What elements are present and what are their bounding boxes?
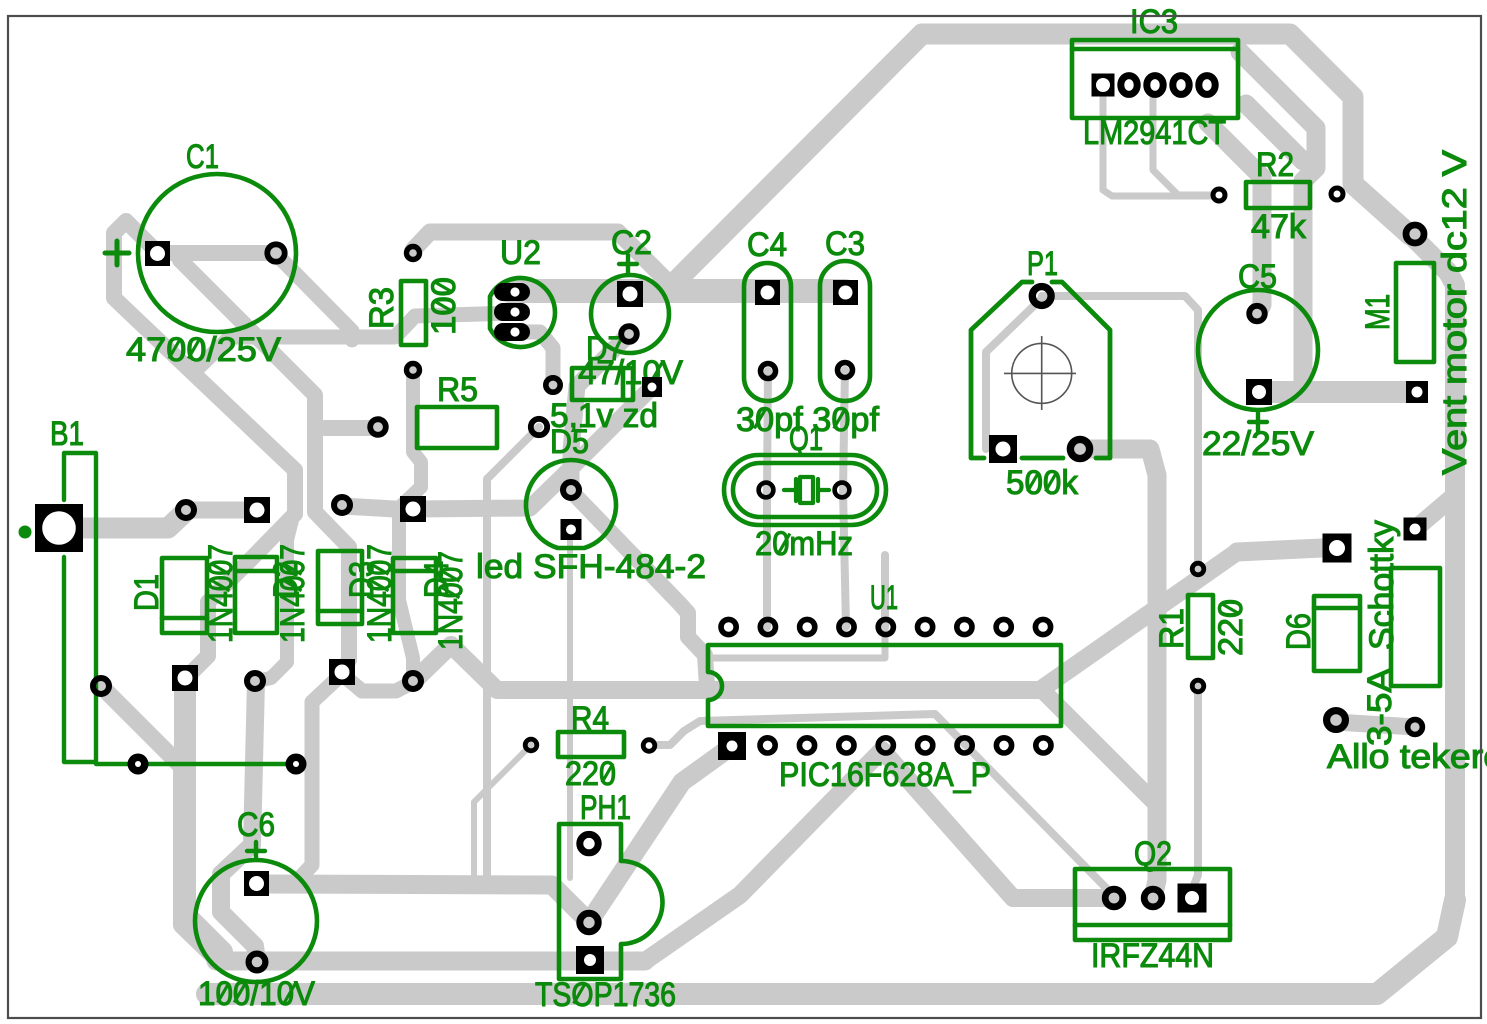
- pad R5 right ring: [531, 419, 547, 435]
- wire trace D5 pad down to bundle: [567, 540, 573, 878]
- motor connector M1 body: [1396, 263, 1434, 362]
- pad C5 top ring: [1249, 306, 1265, 322]
- crystal Q1 inner outline: [733, 463, 877, 517]
- C1 plus sign: [105, 241, 129, 265]
- P1 rotor crosshair: [1004, 336, 1076, 410]
- wire trace R5 right ring diagonal to U1 pin1: [487, 427, 539, 883]
- slashed zero 220 R4: [602, 764, 613, 783]
- wire trace P inner bundle: [1246, 104, 1303, 161]
- resistor R1 body: [1188, 595, 1213, 658]
- svg-text:22/25V: 22/25V: [1202, 425, 1314, 463]
- D7 cathode band: [621, 368, 626, 400]
- svg-text:IC3: IC3: [1130, 3, 1178, 41]
- pad R3 top ring: [407, 247, 420, 260]
- svg-text:PH1: PH1: [580, 789, 631, 827]
- slashed O TSOP1736: [574, 985, 585, 1004]
- svg-text:C2: C2: [611, 224, 652, 262]
- slashed zeros 1N4007 rotated at 232: [211, 563, 230, 591]
- C6 plus sign: [247, 842, 265, 860]
- svg-text:Vent motor dc12 V: Vent motor dc12 V: [1436, 150, 1474, 475]
- slashed zeros 100 R3 rotated: [434, 281, 453, 311]
- pad D5 bottom square: [561, 519, 582, 540]
- slashed zero 47/10V: [651, 363, 662, 382]
- pad C1 positive square: [145, 241, 170, 266]
- svg-text:500k: 500k: [1006, 464, 1079, 502]
- pad R4 left ring: [525, 739, 537, 751]
- pad D5 top ring: [563, 482, 579, 498]
- pad R4 right ring: [643, 740, 655, 752]
- capacitor C6: [195, 860, 317, 982]
- wire trace ring 413,681 to U1 band and D6: [413, 548, 1325, 690]
- slashed zeros 4700/25V: [169, 340, 180, 359]
- C2 plus sign: [619, 255, 637, 273]
- svg-text:R4: R4: [571, 700, 609, 738]
- pad P1 top ring: [1032, 287, 1051, 306]
- svg-text:D6: D6: [1280, 613, 1318, 650]
- svg-text:led SFH-484-2: led SFH-484-2: [476, 548, 706, 586]
- svg-text:47k: 47k: [1251, 208, 1307, 246]
- wire trace thin P1 wiper net: [986, 296, 1042, 449]
- wire trace thin crystal to U1: [881, 555, 889, 627]
- wire trace R3 bottom ring down: [399, 370, 421, 681]
- wire trace branch behind D2 to ring: [257, 516, 293, 681]
- diode D3 body: [318, 551, 362, 624]
- wire trace U1 lower band: [658, 714, 1114, 896]
- LED D5 outline: [526, 460, 616, 548]
- pads U1 top ring row: [721, 619, 1051, 634]
- pad R1 top ring: [1192, 563, 1204, 575]
- pad R2 left ring: [1213, 189, 1225, 201]
- svg-text:Q2: Q2: [1134, 835, 1172, 873]
- wire trace thin C3 to Q1 to U1: [843, 370, 846, 627]
- pad Q2 pin3 square: [1178, 884, 1207, 913]
- pad row2 ring B: [247, 673, 263, 689]
- pad row ring C: [334, 497, 350, 513]
- wire trace D6 pad feed: [1237, 548, 1322, 552]
- wire trace left column down from square pad: [185, 678, 222, 952]
- wire trace C5 to M1: [1259, 381, 1417, 403]
- wire trace P1 bottom right ring to Q2 pin2: [1080, 449, 1157, 898]
- D3 cathode band: [318, 609, 362, 614]
- capacitor C3 outline: [820, 261, 870, 401]
- wire trace U dip square342 to ring413: [342, 674, 413, 691]
- C5 plus sign: [1249, 413, 1267, 431]
- svg-text:3-5A: 3-5A: [1361, 668, 1399, 746]
- capacitor C4 outline: [744, 263, 791, 401]
- pads U2 oblong 1: [494, 283, 530, 301]
- svg-text:C4: C4: [747, 226, 787, 264]
- wire trace C1 pads link: [158, 245, 276, 261]
- capacitor C5: [1198, 290, 1318, 410]
- wire trace D6 ring to Allo ring: [1336, 722, 1415, 727]
- wire trace PH1 ring V junction: [262, 746, 732, 922]
- svg-text:20mHz: 20mHz: [755, 525, 853, 563]
- junction dot right: [286, 754, 307, 775]
- diode D1 body: [162, 558, 207, 633]
- resistor R2 body: [1246, 182, 1310, 208]
- pad C4 bottom ring: [761, 364, 776, 379]
- D6 cathode band: [1314, 606, 1360, 611]
- svg-text:100/10V: 100/10V: [198, 975, 315, 1013]
- svg-text:C3: C3: [825, 225, 865, 263]
- diode D6 body: [1314, 596, 1360, 671]
- pad Q1 right ring: [835, 483, 850, 498]
- pad Q2 pin1 ring: [1105, 889, 1123, 907]
- resistor R5 body: [417, 407, 497, 448]
- wire trace P mid bundle: [1240, 52, 1316, 388]
- pad row2 ring D: [405, 673, 421, 689]
- wire trace ring 256,681 S-curve to C6-: [221, 681, 257, 962]
- svg-text:U2: U2: [500, 234, 541, 272]
- slashed zeros 1N4007 rotated at 304: [283, 563, 302, 591]
- pad C2 negative ring: [621, 326, 637, 342]
- wire trace ring row segment 2: [342, 506, 412, 510]
- svg-text:R1: R1: [1153, 608, 1191, 649]
- svg-text:PIC16F628A_P: PIC16F628A_P: [779, 756, 991, 794]
- wire trace VCC horizontal U2 C2 C4 C3: [510, 279, 845, 303]
- P1 rotor circle: [1012, 343, 1072, 403]
- regulator IC3 body: [1072, 40, 1238, 118]
- pads IC3 rings: [1121, 76, 1215, 95]
- wire trace thin C4 to Q1 to U1: [767, 371, 768, 627]
- crystal symbol: [784, 479, 829, 501]
- pad R5 left ring: [370, 419, 386, 435]
- pad PH1 pin3 square: [576, 946, 604, 974]
- wire trace U2 pad3 to D7 ring: [512, 332, 553, 385]
- slashed zero 220 R1 rotated: [1221, 603, 1240, 614]
- resistor R4 body: [558, 732, 624, 757]
- pad C5 bottom square: [1246, 379, 1272, 405]
- wire trace square pad 342 down to C6 top net: [295, 674, 342, 883]
- pad P1 left square: [989, 435, 1017, 463]
- slashed zeros 30pf 30pf: [754, 410, 765, 429]
- svg-text:D5: D5: [550, 423, 589, 461]
- pad C6 negative ring: [249, 954, 266, 971]
- pad row ring A: [178, 502, 194, 518]
- wire trace thin P1 top to R1 top: [1042, 296, 1198, 569]
- wire trace thin R1 bottom to Q2 gate: [1192, 686, 1198, 898]
- pad C3 top square: [833, 280, 858, 305]
- svg-text:1N4007: 1N4007: [432, 551, 470, 650]
- IC3 tab line: [1072, 47, 1238, 52]
- diode D2 body: [235, 557, 277, 633]
- wire trace ring 101,686 merge: [101, 686, 182, 767]
- svg-text:1N4007: 1N4007: [202, 544, 240, 643]
- svg-text:Allo tekerc: Allo tekerc: [1327, 738, 1487, 776]
- pad IC3 pin1 square: [1092, 74, 1115, 97]
- pad C3 bottom ring: [838, 363, 853, 378]
- wire trace right edge vertical: [1411, 235, 1455, 905]
- wire trace top band to right bundle: [922, 34, 1410, 235]
- pad R2 right ring: [1331, 188, 1343, 200]
- pad B1 big square: [35, 504, 83, 552]
- pad D7 left ring: [546, 378, 560, 392]
- pad ring below ring row: [93, 678, 109, 694]
- wire trace ring row segment 1: [186, 502, 256, 519]
- pad Q1 left ring: [759, 483, 774, 498]
- svg-text:47/10V: 47/10V: [578, 354, 683, 392]
- junction dot left: [128, 754, 149, 775]
- wire trace branch to L1 pad: [1415, 495, 1455, 529]
- wire trace X diagonal NE: [645, 750, 1114, 961]
- pad C6 positive square: [244, 871, 269, 896]
- potentiometer P1 outline: [971, 282, 1110, 458]
- svg-text:LM2941CT: LM2941CT: [1083, 114, 1226, 152]
- wire trace vertical mid-left column: [180, 260, 349, 672]
- svg-text:TSOP1736: TSOP1736: [535, 976, 676, 1014]
- pad L1 square: [1404, 518, 1427, 541]
- wire trace branch to R5 left ring: [315, 420, 378, 436]
- transistor Q2 body: [1075, 869, 1230, 940]
- diode D4 body: [393, 558, 436, 633]
- svg-text:D1: D1: [128, 574, 166, 611]
- Q2 tab line: [1075, 923, 1230, 928]
- svg-text:Q1: Q1: [789, 420, 823, 458]
- wire trace left vertical lower: [182, 767, 216, 958]
- resistor R3 body: [401, 281, 426, 345]
- pad row2 square A: [172, 665, 198, 691]
- pad dc12 ring: [1406, 225, 1424, 243]
- pad PH1 pin1 ring: [580, 834, 598, 852]
- pad C2 positive square: [617, 281, 643, 307]
- svg-text:R2: R2: [1256, 146, 1294, 184]
- zener D7 body: [572, 368, 633, 400]
- pad C1 negative ring: [267, 244, 284, 261]
- svg-text:Schottky: Schottky: [1363, 520, 1401, 650]
- svg-text:R5: R5: [437, 371, 478, 409]
- pad Allo right ring: [1408, 720, 1423, 735]
- pad U1 pin1 square: [718, 732, 746, 760]
- slashed zero 20mHz: [779, 534, 790, 553]
- wire trace R4 left ring to vertical: [474, 745, 531, 883]
- wire trace IC3 to C5 via R2 body: [1208, 123, 1262, 313]
- pad row2 square C: [329, 659, 355, 685]
- wire trace R3 to U2 pad2: [196, 313, 512, 370]
- capacitor C2: [591, 275, 669, 353]
- slashed zeros 1N4007 rotated at 462: [441, 570, 460, 598]
- slashed zeros 500k: [1028, 473, 1039, 492]
- pads U1 bottom ring row: [760, 738, 1051, 753]
- slashed zeros 1N4007 rotated at 391: [370, 563, 389, 591]
- svg-text:IRFZ44N: IRFZ44N: [1091, 937, 1214, 975]
- pads U2 oblong 3: [494, 323, 530, 341]
- svg-text:R3: R3: [363, 287, 401, 329]
- svg-text:M1: M1: [1359, 294, 1397, 330]
- IR receiver PH1 outline: [559, 824, 663, 979]
- svg-text:C1: C1: [186, 138, 219, 176]
- slashed zeros 100/10V: [218, 984, 229, 1003]
- wire trace C1 ring diagonal to y337: [278, 256, 352, 340]
- wire trace thin IC3 pin3 stub: [1153, 98, 1212, 195]
- wire trace thin IC3 pin1 down to R2: [1103, 98, 1212, 196]
- wire trace H3 horizontal y961: [216, 952, 645, 971]
- wire trace R3 top ring net: [413, 232, 670, 284]
- wire trace B1 pad to ring row: [60, 511, 186, 528]
- wire trace D7 pad diagonal to pad row: [415, 387, 652, 509]
- pad M1 bottom square: [1406, 381, 1428, 403]
- pad Allo left ring: [1327, 711, 1346, 730]
- svg-text:C6: C6: [237, 806, 275, 844]
- wire trace big diagonal to top band: [670, 34, 922, 287]
- regulator U2 outline: [490, 278, 555, 347]
- green jumper wire: [96, 762, 296, 766]
- crystal Q1 outer outline: [724, 455, 886, 525]
- pad Q2 pin2 ring: [1144, 889, 1162, 907]
- D1 cathode band: [162, 616, 207, 621]
- pad R3 bottom ring: [407, 364, 420, 377]
- IC U1 body with notch: [708, 645, 1061, 726]
- green origin dot: [19, 526, 32, 539]
- svg-text:C5: C5: [1238, 258, 1277, 296]
- svg-text:1N4007: 1N4007: [274, 544, 312, 643]
- wire trace thin U1 inner stub: [712, 627, 885, 658]
- pads U2 oblong 2: [494, 303, 530, 321]
- wire trace bandU branch to Q2 vertical: [1045, 693, 1157, 805]
- wire trace C1+ to upper left bend: [114, 221, 295, 679]
- svg-text:1N4007: 1N4007: [361, 544, 399, 643]
- pad D7 right square: [642, 377, 662, 397]
- schottky diode body: [1391, 568, 1440, 686]
- svg-text:P1: P1: [1027, 245, 1058, 283]
- wire trace D5 ring diagonal to U1 band: [572, 492, 707, 686]
- D4 cathode band: [393, 569, 436, 574]
- battery B1 outline: [64, 453, 96, 762]
- svg-text:B1: B1: [50, 415, 84, 453]
- pad C4 top square: [755, 280, 780, 305]
- capacitor C1: [138, 174, 296, 332]
- D2 cathode band: [235, 569, 277, 574]
- svg-text:4700/25V: 4700/25V: [126, 331, 281, 369]
- pad P1 right ring: [1070, 439, 1089, 458]
- svg-text:U1: U1: [870, 579, 898, 617]
- wire trace C2- to D5 top: [571, 334, 629, 490]
- pad D6 top square: [1323, 534, 1352, 563]
- pad R1 bottom ring: [1192, 680, 1204, 692]
- wire trace H2 bottom bus: [207, 900, 1455, 994]
- pad row square D: [400, 496, 426, 522]
- pad row square B: [244, 497, 270, 523]
- pad PH1 pin2 ring: [580, 913, 598, 931]
